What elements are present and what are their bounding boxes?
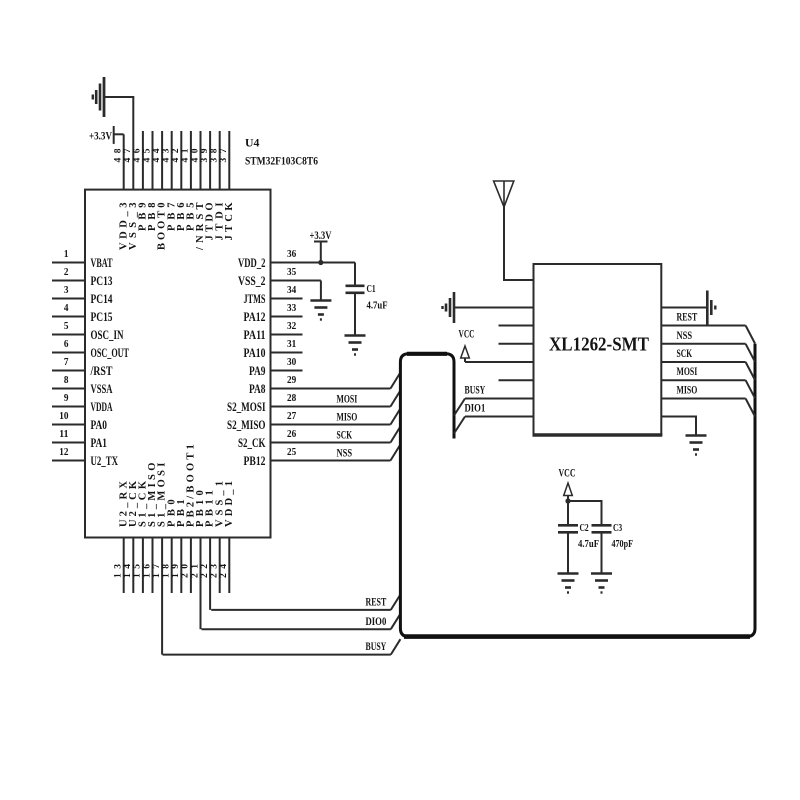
svg-text:VDD_2: VDD_2 (238, 256, 266, 270)
svg-text:VDDA: VDDA (91, 400, 113, 414)
svg-text:27: 27 (287, 410, 297, 422)
svg-text:BUSY: BUSY (366, 639, 387, 653)
pin 8 VSSA wire (52, 388, 85, 390)
capacitor C2 lower wire (567, 533, 569, 573)
svg-text:MOSI: MOSI (677, 364, 698, 378)
svg-text:OSC_IN: OSC_IN (91, 328, 124, 342)
pin 9 VDDA wire (52, 406, 85, 408)
pin 38 JTDI wire (219, 131, 221, 190)
pin 11 PA1 wire (52, 442, 85, 444)
ground below C3 (591, 574, 612, 593)
wire NSS bus entry right (746, 344, 755, 362)
bus thick trunk (400, 344, 755, 637)
pin 1 VBAT wire (52, 262, 85, 264)
pin 6 OSC_OUT wire (52, 352, 85, 354)
svg-text:S2_MOSI: S2_MOSI (227, 400, 266, 414)
wire REST bus entry right (746, 326, 755, 344)
svg-text:C2: C2 (580, 522, 590, 534)
svg-text:2: 2 (64, 266, 69, 278)
ground below C2 (558, 574, 579, 593)
svg-text:PA11: PA11 (244, 328, 266, 342)
pin 43 PB7 wire (171, 131, 173, 190)
pin 22 PB11 wire (209, 538, 211, 610)
svg-text:33: 33 (287, 302, 297, 314)
pin 28 S2_MOSI wire (271, 406, 391, 408)
svg-text:SCK: SCK (677, 346, 693, 360)
wire module VCC pin (465, 361, 534, 363)
capacitor C1 plates (346, 284, 365, 287)
pin 19 PB1 wire (180, 538, 182, 594)
pin 46 PB9 wire (142, 131, 144, 190)
capacitor C3 lower wire (601, 533, 603, 573)
svg-text:PA0: PA0 (91, 418, 108, 432)
svg-text:S2_CK: S2_CK (238, 436, 266, 450)
svg-text:C3: C3 (613, 522, 623, 534)
pin 41 PB5 wire (190, 131, 192, 190)
svg-text:VCC: VCC (459, 327, 475, 341)
pin 25 PB12 wire (271, 460, 391, 462)
svg-text:12: 12 (59, 446, 69, 458)
pin 3 PC14 wire (52, 298, 85, 300)
svg-text:VSSA: VSSA (91, 382, 113, 396)
svg-text:MISO: MISO (677, 383, 698, 397)
wire VCC to C3 (568, 501, 602, 525)
pin 39 JTDO wire (209, 131, 211, 190)
svg-text:PA1: PA1 (91, 436, 108, 450)
svg-text:SCK: SCK (337, 428, 353, 442)
pin 2 PC13 wire (52, 280, 85, 282)
svg-text:DIO1: DIO1 (465, 401, 486, 415)
pin 29 PA8 wire (271, 388, 391, 390)
wire MISO bus entry (391, 409, 401, 425)
wire MOSI bus entry (391, 391, 401, 407)
svg-text:JTMS: JTMS (244, 292, 266, 306)
wire DIO0 horizontal (202, 628, 391, 630)
pin 10 PA0 wire (52, 424, 85, 426)
antenna ANT1 (494, 181, 514, 207)
wire REST horizontal (211, 609, 391, 611)
wire REST from module (661, 325, 745, 327)
wire NSS bus entry (391, 445, 401, 461)
pin 45 PB8 wire (152, 131, 154, 190)
capacitor C1 wires (354, 263, 356, 286)
wire DIO1 to module (465, 416, 534, 418)
pin 17 S1_MOSI wire (161, 538, 163, 655)
pin 33 PA12 wire (271, 316, 303, 318)
wire MOSI bus entry right (746, 380, 755, 398)
pin 21 PB10 wire (200, 538, 202, 630)
svg-text:XL1262-SMT: XL1262-SMT (549, 335, 649, 356)
+3.3V power tap at pin 36 (314, 241, 328, 243)
wire BUSY to module (465, 398, 534, 400)
svg-text:S1_MOSI: S1_MOSI (157, 463, 168, 527)
wire SCK from module (661, 361, 745, 363)
svg-text:5: 5 (64, 320, 69, 332)
pin 44 BOOT0 wire (161, 131, 163, 190)
svg-text:7: 7 (64, 356, 69, 368)
svg-text:3: 3 (64, 284, 69, 296)
pin 48 VDD_3 wire (123, 134, 125, 189)
svg-text:VCC: VCC (559, 466, 576, 480)
svg-text:9: 9 (64, 392, 69, 404)
pin 42 PB6 wire (180, 131, 182, 190)
wire MOSI from module (661, 379, 745, 381)
ground at pin 35 VSS_2 (320, 281, 322, 300)
svg-text:36: 36 (287, 248, 297, 260)
svg-text:35: 35 (287, 266, 297, 278)
pin 47 VSS_3 wire (132, 97, 134, 190)
svg-text:470pF: 470pF (612, 538, 634, 550)
pin 7 /RST wire (52, 370, 85, 372)
svg-text:10: 10 (59, 410, 69, 422)
wire antenna to module (504, 207, 534, 280)
pin 16 S1_MISO wire (152, 538, 154, 594)
pin 37 JTCK wire (228, 131, 230, 190)
svg-text:BUSY: BUSY (465, 383, 486, 397)
capacitor C3 plates (592, 524, 612, 527)
module XL1262-SMT body (534, 264, 662, 435)
svg-text:U4: U4 (245, 136, 259, 150)
wire REST bus entry (391, 595, 401, 610)
svg-text:REST: REST (366, 595, 387, 609)
svg-text:STM32F103C8T6: STM32F103C8T6 (245, 154, 318, 168)
pin 30 PA9 wire (271, 370, 303, 372)
ground below C1 (345, 336, 366, 355)
wire PA8 bus entry (391, 373, 401, 389)
ic U4 STM32F103C8T6 body (85, 190, 271, 538)
pin 34 JTMS wire (271, 298, 303, 300)
svg-text:C1: C1 (367, 283, 376, 295)
svg-text:34: 34 (287, 284, 297, 296)
svg-text:1: 1 (64, 248, 69, 260)
wire DIO0 bus entry (391, 614, 401, 629)
pin 24 VDD_1 wire (228, 538, 230, 594)
junction on VCC net (565, 498, 570, 503)
svg-text:6: 6 (64, 338, 69, 350)
pin 14 U2_CK wire (132, 538, 134, 594)
wire BUSY bus entry (391, 639, 401, 654)
svg-text:11: 11 (59, 428, 68, 440)
pin 5 OSC_IN wire (52, 334, 85, 336)
svg-text:+3.3V: +3.3V (310, 228, 332, 242)
pin 27 S2_MISO wire (271, 424, 391, 426)
svg-text:VSS_2: VSS_2 (238, 274, 266, 288)
module left stub pin 3 (499, 343, 534, 345)
svg-text:4: 4 (64, 302, 69, 314)
wire BUSY horizontal (163, 654, 391, 656)
svg-text:PB12: PB12 (244, 454, 266, 468)
wire BUSY bus exit (454, 399, 465, 416)
pin 13 U2_RX wire (123, 538, 125, 594)
pin 23 VSS_1 wire (219, 538, 221, 594)
svg-text:PA10: PA10 (244, 346, 266, 360)
+3.3V power tap at pin 48 (113, 126, 115, 144)
svg-text:MOSI: MOSI (337, 392, 358, 406)
svg-text:4.7uF: 4.7uF (578, 538, 599, 550)
wire module right GND pin (661, 307, 706, 309)
module left stub pin 5 (499, 379, 534, 381)
wire module bottom-right GND pin (661, 417, 696, 435)
svg-text:32: 32 (287, 320, 297, 332)
svg-text:28: 28 (287, 392, 297, 404)
wire module left GND pin (455, 307, 534, 309)
ground below module right (686, 436, 707, 455)
pin 12 U2_TX wire (52, 460, 85, 462)
pin 40 /NRST wire (200, 131, 202, 190)
wire MISO from module (661, 398, 745, 400)
junction on VDD_2 net (318, 260, 323, 265)
svg-text:U2_TX: U2_TX (91, 454, 119, 468)
wire SCK bus entry (391, 427, 401, 443)
svg-text:/RST: /RST (90, 364, 113, 378)
svg-text:PA8: PA8 (249, 382, 266, 396)
svg-text:REST: REST (677, 310, 698, 324)
pin 26 S2_CK wire (271, 442, 391, 444)
pin 32 PA11 wire (271, 334, 303, 336)
svg-text:25: 25 (287, 446, 297, 458)
pin 20 PB2/BOOT1 wire (190, 538, 192, 594)
svg-text:PA9: PA9 (249, 364, 266, 378)
svg-text:OSC_OUT: OSC_OUT (91, 346, 130, 360)
svg-text:+3.3V: +3.3V (89, 129, 112, 143)
ground left of module (443, 292, 455, 323)
wire DIO1 bus exit (454, 417, 465, 434)
svg-text:26: 26 (287, 428, 297, 440)
svg-text:PA12: PA12 (244, 310, 266, 324)
svg-text:8: 8 (64, 374, 69, 386)
svg-text:29: 29 (287, 374, 297, 386)
svg-text:DIO0: DIO0 (366, 614, 387, 628)
svg-text:VBAT: VBAT (91, 256, 113, 270)
pin 4 PC15 wire (52, 316, 85, 318)
wire MISO bus entry right (746, 399, 755, 417)
pin 18 PB0 wire (171, 538, 173, 594)
svg-text:4.7uF: 4.7uF (367, 300, 388, 312)
pin 31 PA10 wire (271, 352, 303, 354)
svg-text:NSS: NSS (337, 446, 353, 460)
wire SCK bus entry right (746, 362, 755, 380)
VCC power arrow left (461, 346, 470, 358)
pin 36 VDD_2 wire (271, 262, 356, 264)
pin 35 VSS_2 wire (271, 280, 321, 282)
ground at pin 47 (105, 96, 134, 98)
svg-text:S2_MISO: S2_MISO (227, 418, 266, 432)
wire NSS from module (661, 343, 745, 345)
svg-text:30: 30 (287, 356, 297, 368)
ground right of module (707, 291, 715, 325)
svg-text:PC13: PC13 (91, 274, 113, 288)
module left stub pin 2 (499, 325, 534, 327)
svg-text:NSS: NSS (677, 328, 693, 342)
svg-text:PC14: PC14 (91, 292, 114, 306)
pin 15 S1_CK wire (142, 538, 144, 594)
svg-text:PC15: PC15 (91, 310, 113, 324)
svg-text:MISO: MISO (337, 410, 358, 424)
svg-text:31: 31 (287, 338, 296, 350)
capacitor C2 plates (558, 524, 578, 527)
